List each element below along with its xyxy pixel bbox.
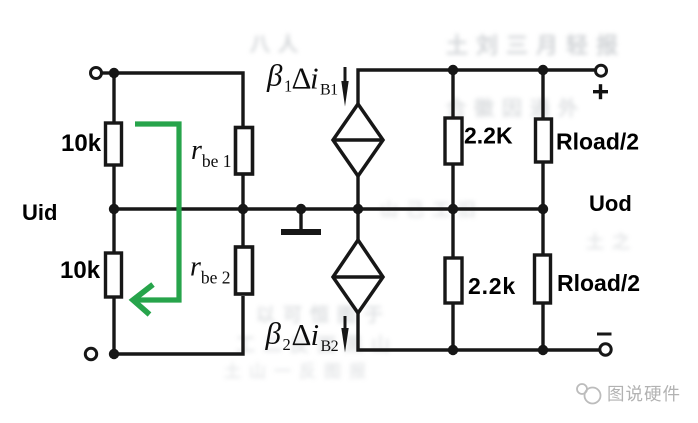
svg-text:Uod: Uod bbox=[589, 191, 632, 216]
node source mid bbox=[353, 204, 363, 214]
wire Rload column upper bbox=[541, 70, 544, 120]
resistor 10k (upper) bbox=[106, 123, 122, 165]
wire mid rail to rbe2 bbox=[241, 209, 244, 247]
svg-text:β2ΔiB2: β2ΔiB2 bbox=[265, 316, 339, 356]
ground bar bbox=[281, 229, 321, 235]
wire terminal to node bbox=[102, 71, 114, 74]
input terminal bottom-left bbox=[85, 348, 96, 359]
arrow beta2 current direction bbox=[344, 316, 347, 332]
output terminal bottom-right bbox=[600, 344, 611, 355]
wire Rload lower to bottom rail bbox=[541, 303, 544, 350]
wire top loop to rbe1 bbox=[114, 73, 243, 129]
wire lower 10k to bottom node bbox=[112, 297, 115, 354]
node bottom-left junction bbox=[109, 349, 119, 359]
wire rail to 2.2k lower bbox=[451, 209, 454, 259]
wire 2.2K upper to rail bbox=[451, 164, 454, 209]
arrow beta1 current direction bbox=[344, 67, 347, 86]
node rbe mid bbox=[238, 204, 248, 214]
ground stub bbox=[299, 209, 302, 229]
wire rbe1 to mid rail bbox=[241, 174, 244, 209]
label plus terminal bbox=[593, 84, 608, 99]
svg-text:10k: 10k bbox=[61, 130, 102, 157]
resistor rbe1 bbox=[236, 128, 253, 175]
svg-text:10k: 10k bbox=[60, 257, 101, 284]
svg-text:Rload/2: Rload/2 bbox=[556, 129, 639, 155]
svg-text:Rload/2: Rload/2 bbox=[557, 270, 640, 296]
resistor rbe2 bbox=[236, 247, 253, 294]
wire bottom-left rail bbox=[114, 296, 243, 354]
wire upper diamond to rail bbox=[356, 176, 359, 209]
svg-text:rbe 2: rbe 2 bbox=[190, 252, 231, 288]
wire current-source column top bbox=[358, 70, 595, 104]
faint scan bleed-through (decorative) bbox=[446, 28, 626, 60]
minus sign of output bbox=[597, 333, 612, 336]
wire Rload upper to rail bbox=[541, 162, 544, 209]
resistor 10k (lower) bbox=[106, 253, 122, 297]
controlled source upper diamond bbox=[333, 104, 383, 176]
output terminal top-right bbox=[596, 65, 607, 76]
svg-text:β1ΔiB1: β1ΔiB1 bbox=[266, 58, 338, 99]
svg-text:2.2k: 2.2k bbox=[468, 273, 516, 299]
resistor Rload/2 upper bbox=[536, 119, 552, 162]
node mid-left bbox=[109, 204, 119, 214]
wire mid-left down to lower 10k bbox=[112, 209, 115, 254]
node 2.2k bottom bbox=[448, 345, 458, 355]
upper diamond midline bbox=[333, 138, 383, 142]
input terminal top-left bbox=[91, 68, 102, 79]
resistor 2.2k lower bbox=[445, 258, 462, 303]
svg-text:图说硬件: 图说硬件 bbox=[607, 384, 681, 404]
wire mid rail bbox=[114, 207, 543, 210]
ground node dot bbox=[296, 204, 306, 214]
svg-text:Uid: Uid bbox=[22, 200, 57, 225]
resistor 2.2K upper bbox=[445, 118, 462, 164]
wire 2.2K column upper bbox=[451, 70, 454, 119]
node 2.2K top bbox=[448, 65, 458, 75]
resistor Rload/2 lower bbox=[535, 255, 551, 303]
wire 2.2k lower to bottom rail bbox=[451, 303, 454, 350]
node 2.2K mid bbox=[448, 204, 458, 214]
wire 10k upper to mid rail bbox=[112, 165, 115, 210]
node Rload top bbox=[538, 65, 548, 75]
node top-left junction bbox=[109, 68, 119, 78]
svg-text:2.2K: 2.2K bbox=[464, 123, 513, 149]
wire rail to lower diamond bbox=[356, 209, 359, 240]
wire rail to Rload lower bbox=[541, 209, 544, 256]
svg-text:rbe 1: rbe 1 bbox=[191, 135, 232, 171]
lower diamond midline bbox=[333, 275, 383, 279]
green feedback loop arrow bbox=[133, 124, 179, 315]
node Rload mid bbox=[538, 204, 548, 214]
watermark logo bbox=[577, 384, 601, 404]
controlled source lower diamond bbox=[333, 240, 383, 313]
wire lower diamond to bottom rail bbox=[358, 313, 599, 350]
node Rload bottom bbox=[538, 345, 548, 355]
wire left column upper bbox=[112, 73, 115, 124]
